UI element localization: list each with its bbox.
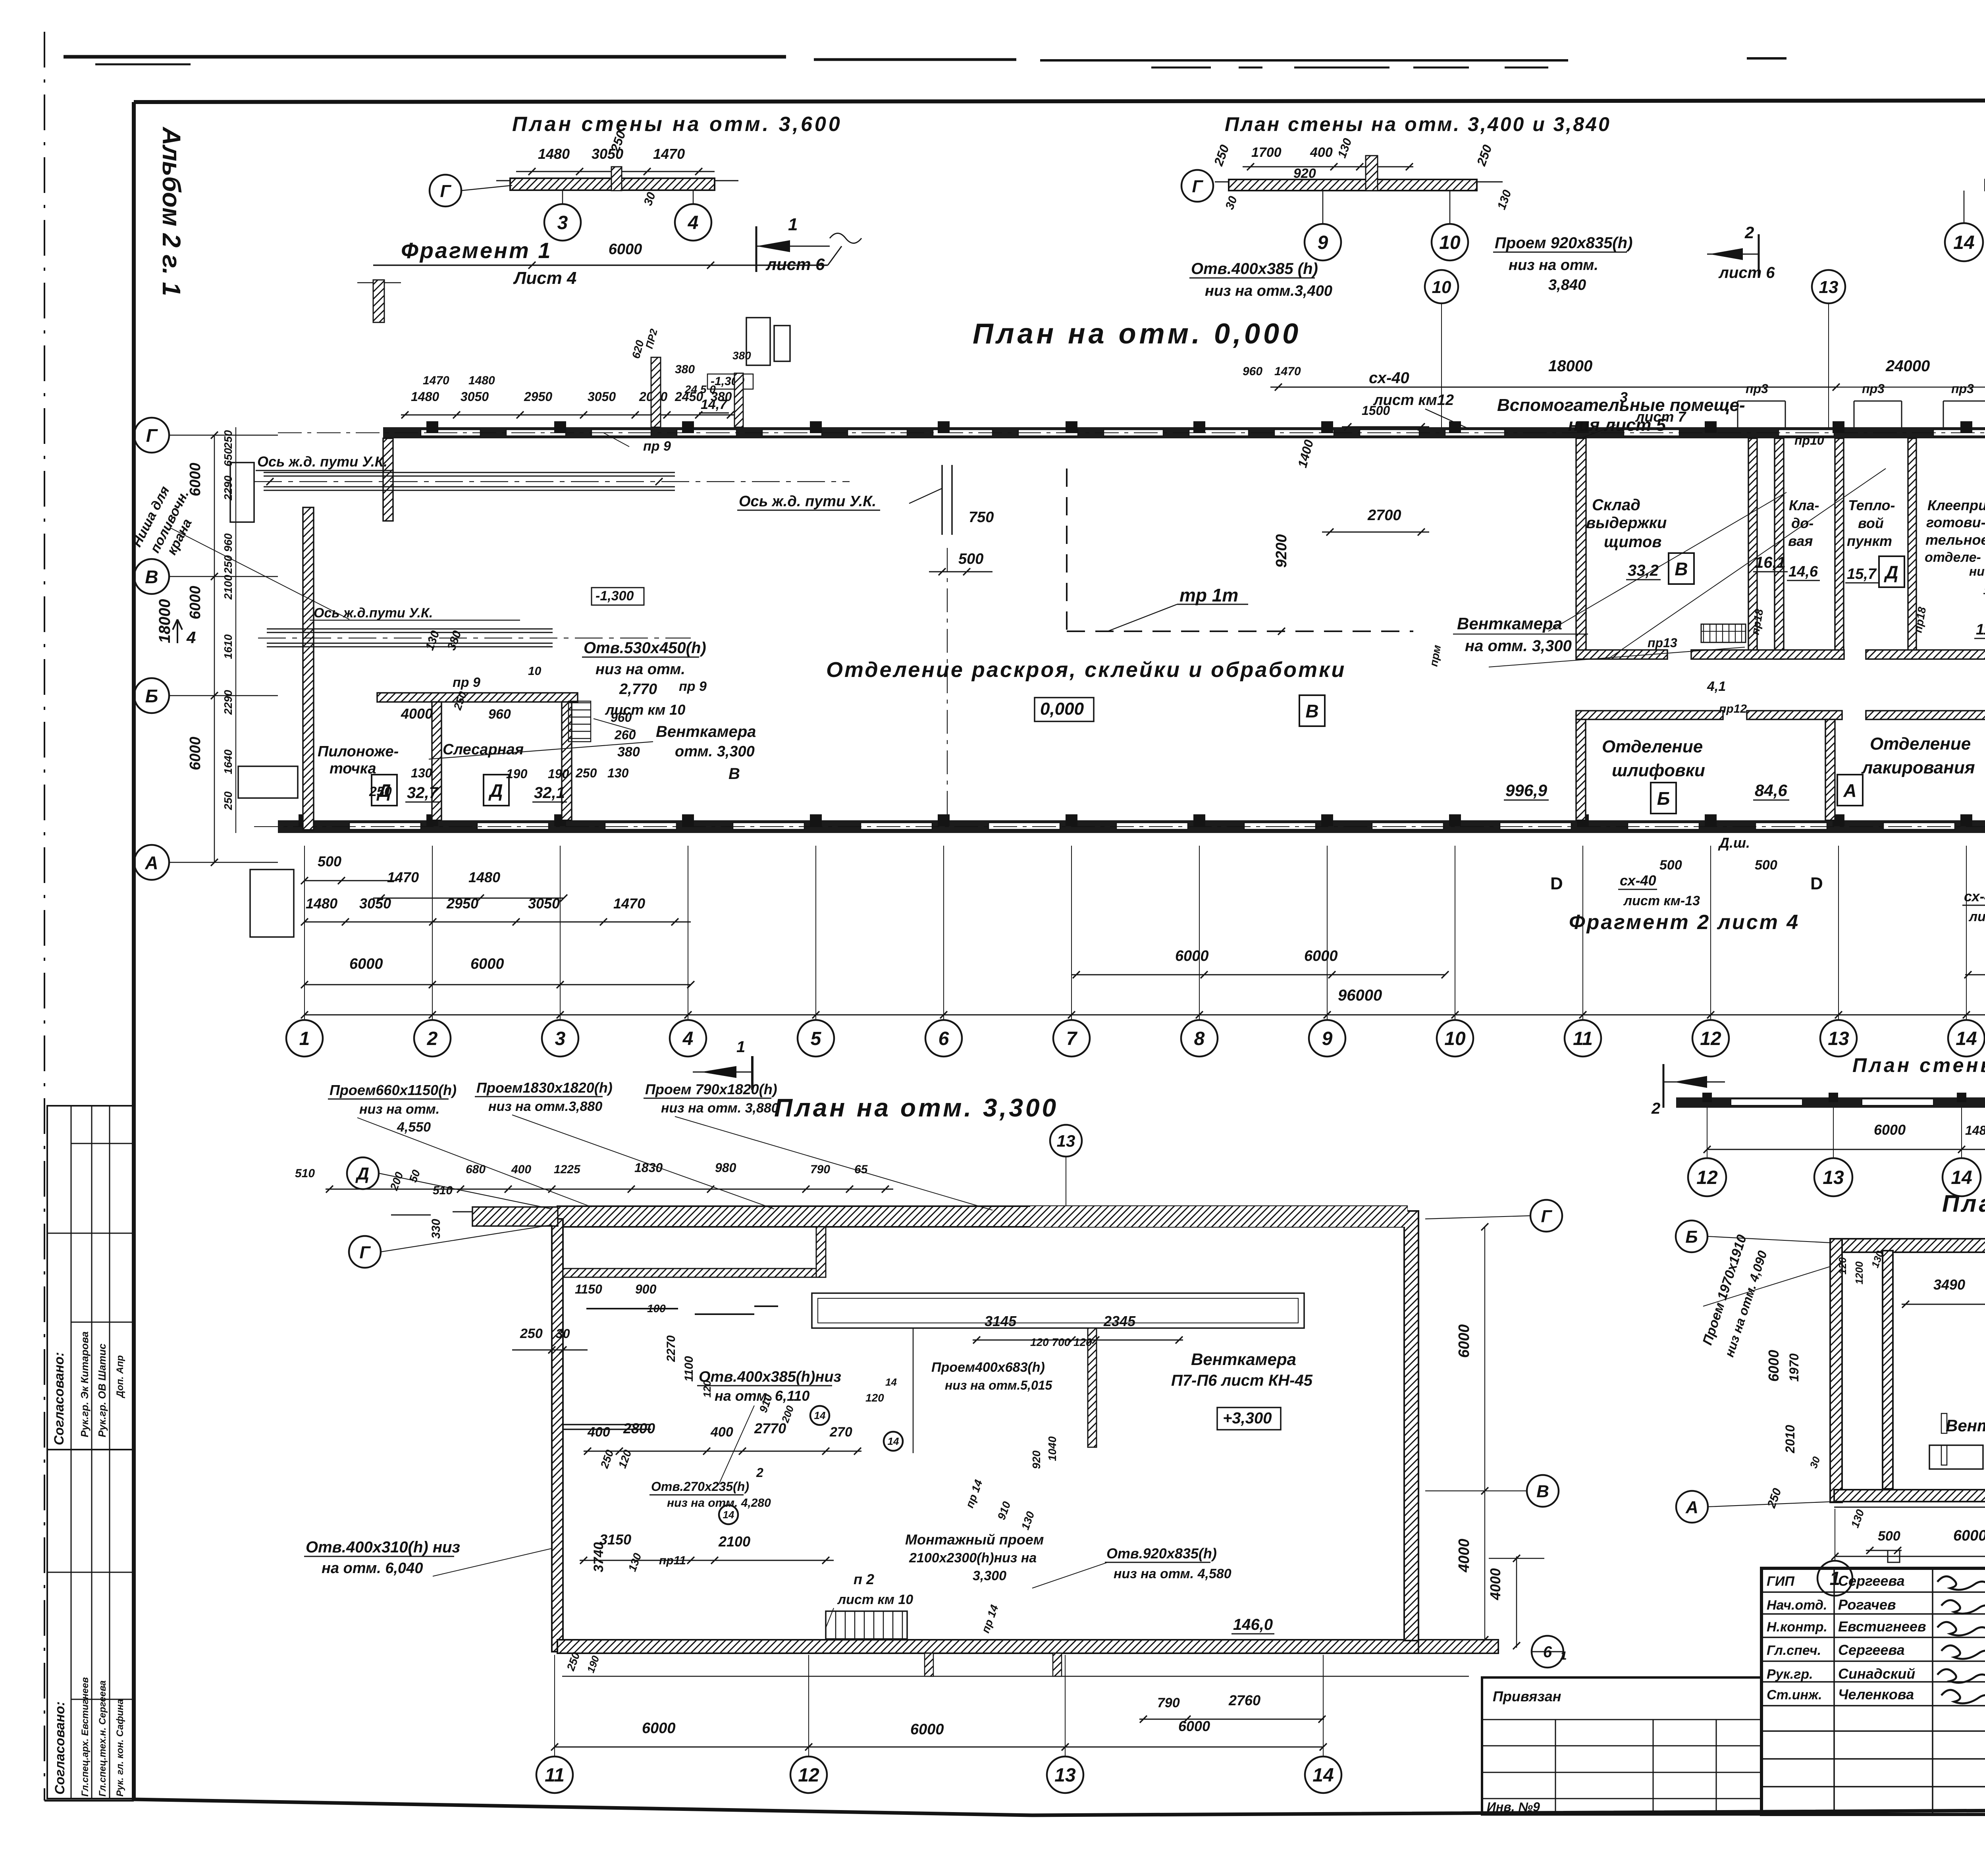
svg-text:250: 250 <box>222 555 234 574</box>
svg-text:2950: 2950 <box>446 895 478 912</box>
svg-text:до-: до- <box>1791 515 1813 531</box>
svg-text:на отм. 3,300: на отм. 3,300 <box>1465 637 1572 655</box>
svg-text:Г: Г <box>359 1243 371 1262</box>
svg-text:сх-40: сх-40 <box>1620 872 1656 889</box>
svg-text:33,2: 33,2 <box>1628 562 1659 579</box>
svg-text:В: В <box>1305 701 1318 721</box>
svg-text:План на отм. 0,000: План на отм. 0,000 <box>973 318 1301 350</box>
svg-text:готови-: готови- <box>1926 514 1985 530</box>
svg-text:10: 10 <box>1432 278 1451 297</box>
svg-text:низ на отм.: низ на отм. <box>595 661 685 678</box>
svg-text:12: 12 <box>1696 1167 1718 1188</box>
svg-text:750: 750 <box>969 509 994 526</box>
svg-text:4000: 4000 <box>1456 1539 1472 1573</box>
svg-text:10: 10 <box>1439 232 1461 253</box>
svg-text:пр3: пр3 <box>1746 382 1768 396</box>
svg-text:Проем400х683(h): Проем400х683(h) <box>931 1360 1045 1375</box>
svg-text:Отв.270х235(h): Отв.270х235(h) <box>651 1479 749 1494</box>
svg-text:Рук. гл. кон. Сафина: Рук. гл. кон. Сафина <box>115 1699 125 1797</box>
svg-text:А: А <box>145 852 158 873</box>
svg-text:270: 270 <box>829 1425 852 1440</box>
svg-text:низ на отм.: низ на отм. <box>1509 257 1598 274</box>
svg-text:Венткамера: Венткамера <box>1457 614 1562 633</box>
svg-text:Отв.400х385 (h): Отв.400х385 (h) <box>1191 260 1318 278</box>
svg-text:14: 14 <box>814 1409 826 1421</box>
svg-text:низ на отм. 3,880: низ на отм. 3,880 <box>661 1101 779 1116</box>
svg-text:1040: 1040 <box>1046 1436 1058 1461</box>
svg-text:В: В <box>728 765 740 783</box>
svg-text:13: 13 <box>1819 278 1839 297</box>
svg-text:9200: 9200 <box>1273 534 1290 568</box>
svg-text:14: 14 <box>888 1435 899 1447</box>
svg-text:D: D <box>1810 874 1823 893</box>
svg-text:на отм. 6,040: на отм. 6,040 <box>322 1560 423 1577</box>
svg-text:380: 380 <box>617 744 640 760</box>
svg-text:6000: 6000 <box>1178 1718 1210 1734</box>
svg-text:Г: Г <box>146 425 158 446</box>
svg-text:3: 3 <box>555 1028 566 1049</box>
svg-text:900: 900 <box>635 1282 657 1296</box>
svg-text:В: В <box>1675 559 1688 579</box>
svg-text:пр 9: пр 9 <box>643 439 671 454</box>
svg-text:2770: 2770 <box>754 1420 786 1436</box>
svg-text:2010: 2010 <box>1783 1425 1797 1454</box>
svg-text:13: 13 <box>1823 1167 1844 1188</box>
svg-text:24000: 24000 <box>1885 357 1930 375</box>
svg-text:380: 380 <box>732 349 751 362</box>
svg-text:3740: 3740 <box>591 1542 606 1572</box>
svg-text:6: 6 <box>939 1028 949 1049</box>
svg-text:146,0: 146,0 <box>1233 1616 1273 1633</box>
svg-text:2290: 2290 <box>222 475 234 501</box>
svg-text:13: 13 <box>1828 1028 1849 1049</box>
svg-text:3050: 3050 <box>461 389 489 404</box>
svg-text:1480: 1480 <box>306 895 337 912</box>
svg-text:1200: 1200 <box>1853 1261 1865 1284</box>
svg-text:Проем660х1150(h): Проем660х1150(h) <box>330 1082 457 1098</box>
svg-text:1100: 1100 <box>682 1356 696 1382</box>
svg-text:отм. 3,300: отм. 3,300 <box>675 743 755 760</box>
svg-text:30: 30 <box>556 1327 570 1341</box>
svg-text:1: 1 <box>1560 1649 1567 1662</box>
svg-text:10: 10 <box>1444 1028 1466 1049</box>
svg-text:1470: 1470 <box>653 146 685 162</box>
svg-text:400: 400 <box>1310 145 1333 160</box>
svg-text:Кла-: Кла- <box>1789 497 1819 513</box>
svg-text:пр 9: пр 9 <box>679 679 707 694</box>
svg-text:330: 330 <box>430 1219 443 1239</box>
svg-text:низ на отм. 4,580: низ на отм. 4,580 <box>1114 1566 1231 1581</box>
svg-text:250: 250 <box>222 430 234 449</box>
svg-text:2100: 2100 <box>222 575 234 600</box>
svg-text:Евстигнеев: Евстигнеев <box>1838 1618 1926 1635</box>
svg-text:2,770: 2,770 <box>619 681 657 698</box>
svg-text:120: 120 <box>1837 1257 1848 1274</box>
svg-text:960: 960 <box>1243 365 1262 378</box>
svg-text:Сергеева: Сергеева <box>1838 1642 1905 1658</box>
svg-text:6000: 6000 <box>470 956 504 972</box>
svg-text:Отделение: Отделение <box>1602 737 1703 756</box>
svg-text:6000: 6000 <box>1304 948 1338 964</box>
svg-text:сх-40: сх-40 <box>1964 888 1985 904</box>
svg-text:65: 65 <box>854 1163 868 1176</box>
svg-text:250: 250 <box>369 784 392 799</box>
svg-text:250: 250 <box>520 1326 543 1341</box>
svg-text:18000: 18000 <box>156 599 173 643</box>
svg-text:Ось ж.д. пути У.К.: Ось ж.д. пути У.К. <box>739 493 876 510</box>
svg-text:1480: 1480 <box>411 389 439 404</box>
svg-text:пункт: пункт <box>1847 533 1892 549</box>
svg-text:14: 14 <box>723 1509 734 1521</box>
svg-text:9: 9 <box>1322 1028 1333 1049</box>
svg-text:-1,300: -1,300 <box>595 588 634 603</box>
svg-text:Синадский: Синадский <box>1838 1666 1915 1682</box>
svg-text:6000: 6000 <box>1456 1324 1472 1358</box>
svg-text:6000: 6000 <box>187 463 204 496</box>
svg-text:Венткамера: Венткамера <box>1191 1350 1296 1369</box>
svg-text:пр3: пр3 <box>1862 382 1885 396</box>
svg-text:2: 2 <box>1744 223 1754 242</box>
svg-text:4000: 4000 <box>401 706 433 722</box>
svg-text:130: 130 <box>411 766 432 780</box>
svg-text:Нач.отд.: Нач.отд. <box>1767 1598 1827 1613</box>
svg-text:Привязан: Привязан <box>1493 1688 1561 1704</box>
svg-text:9: 9 <box>1318 232 1328 253</box>
svg-text:Проем 790х1820(h): Проем 790х1820(h) <box>645 1081 777 1097</box>
svg-text:пр11: пр11 <box>659 1554 686 1567</box>
svg-text:1480: 1480 <box>468 374 495 387</box>
svg-text:3: 3 <box>557 212 568 233</box>
svg-text:1150: 1150 <box>575 1282 602 1296</box>
svg-text:11: 11 <box>545 1765 565 1786</box>
svg-text:п 2: п 2 <box>854 1571 874 1587</box>
svg-text:2270: 2270 <box>665 1335 678 1362</box>
svg-text:790: 790 <box>810 1163 830 1176</box>
svg-text:Отв.920х835(h): Отв.920х835(h) <box>1106 1545 1217 1562</box>
svg-text:тельное: тельное <box>1925 532 1985 548</box>
svg-text:16,1: 16,1 <box>1755 554 1786 571</box>
svg-text:лист 7: лист 7 <box>1635 409 1686 425</box>
svg-text:План стены на отм. 3,400 и 3,8: План стены на отм. 3,400 и 3,840 <box>1225 113 1611 135</box>
svg-text:96000: 96000 <box>1338 987 1382 1004</box>
svg-text:ние: ние <box>1969 564 1985 578</box>
svg-text:точка: точка <box>330 760 376 777</box>
svg-text:Г: Г <box>1192 177 1203 196</box>
svg-text:Отделение: Отделение <box>1870 734 1971 754</box>
svg-text:План стены на отм. 3,600: План стены на отм. 3,600 <box>1852 1054 1985 1076</box>
svg-text:996,9: 996,9 <box>1505 781 1548 800</box>
svg-text:Проем1830х1820(h): Проем1830х1820(h) <box>476 1080 613 1096</box>
svg-text:250: 250 <box>222 791 234 810</box>
svg-text:А: А <box>1843 780 1856 801</box>
svg-text:3050: 3050 <box>528 895 560 912</box>
svg-text:2760: 2760 <box>1228 1692 1260 1708</box>
svg-text:Доп. Апр: Доп. Апр <box>115 1355 125 1398</box>
svg-text:400: 400 <box>710 1425 733 1440</box>
svg-text:щитов: щитов <box>1604 533 1661 551</box>
svg-text:960: 960 <box>488 707 511 722</box>
svg-text:190: 190 <box>506 767 528 781</box>
svg-text:Б: Б <box>1657 788 1670 809</box>
svg-text:118Б: 118Б <box>1976 621 1985 638</box>
svg-text:Рук.гр. Эк Китарова: Рук.гр. Эк Китарова <box>79 1331 91 1437</box>
svg-text:13: 13 <box>1054 1765 1076 1786</box>
svg-text:Пилоноже-: Пилоноже- <box>318 743 399 760</box>
svg-text:Г: Г <box>1541 1207 1552 1226</box>
svg-text:3,300: 3,300 <box>973 1568 1006 1583</box>
svg-text:выдержки: выдержки <box>1586 514 1667 532</box>
svg-text:Фрагмент 1: Фрагмент 1 <box>401 238 552 263</box>
svg-text:Проем 920х835(h): Проем 920х835(h) <box>1495 234 1632 252</box>
svg-text:1480: 1480 <box>538 146 570 162</box>
svg-text:4000: 4000 <box>1487 1568 1503 1600</box>
svg-text:+3,300: +3,300 <box>1223 1409 1272 1427</box>
svg-text:4: 4 <box>688 212 699 233</box>
svg-text:В: В <box>145 567 158 587</box>
svg-text:2: 2 <box>1651 1100 1660 1117</box>
svg-text:11: 11 <box>1573 1028 1593 1049</box>
svg-text:120: 120 <box>701 1380 713 1398</box>
svg-text:сх-40: сх-40 <box>1369 369 1409 387</box>
svg-text:Ст.инж.: Ст.инж. <box>1767 1687 1822 1702</box>
svg-text:3: 3 <box>1620 389 1628 405</box>
svg-text:Отв.400х385(h)низ: Отв.400х385(h)низ <box>699 1369 841 1385</box>
svg-text:пр13: пр13 <box>1648 636 1677 650</box>
svg-text:790: 790 <box>1157 1695 1180 1710</box>
svg-text:510: 510 <box>433 1184 453 1197</box>
svg-text:2800: 2800 <box>623 1420 655 1436</box>
svg-text:1610: 1610 <box>222 634 234 659</box>
svg-text:400: 400 <box>511 1163 531 1176</box>
svg-text:1: 1 <box>736 1038 745 1056</box>
svg-text:лист 6: лист 6 <box>1718 264 1775 281</box>
svg-text:Рук.гр.: Рук.гр. <box>1767 1667 1813 1682</box>
svg-text:пр 9: пр 9 <box>453 675 480 690</box>
svg-text:6000: 6000 <box>1953 1527 1985 1544</box>
svg-text:14: 14 <box>1953 232 1974 253</box>
svg-text:14,6: 14,6 <box>1788 563 1818 580</box>
svg-text:Гл.спец.тех.н. Сергеева: Гл.спец.тех.н. Сергеева <box>97 1680 108 1797</box>
svg-text:1: 1 <box>299 1028 310 1049</box>
svg-text:Монтажный проем: Монтажный проем <box>905 1531 1044 1548</box>
svg-text:84,6: 84,6 <box>1755 781 1787 800</box>
svg-text:3145: 3145 <box>985 1313 1017 1329</box>
svg-text:510: 510 <box>295 1167 315 1180</box>
svg-text:лакирования: лакирования <box>1861 758 1975 777</box>
svg-text:380: 380 <box>675 363 695 376</box>
svg-text:130: 130 <box>607 766 629 780</box>
svg-text:6000: 6000 <box>910 1721 944 1738</box>
svg-text:920: 920 <box>1030 1450 1043 1469</box>
svg-text:6000: 6000 <box>1765 1350 1782 1382</box>
svg-text:6000: 6000 <box>642 1720 676 1737</box>
svg-text:5: 5 <box>811 1028 822 1049</box>
svg-text:Сергеева: Сергеева <box>1838 1573 1905 1589</box>
svg-text:Лист 4: Лист 4 <box>513 268 576 288</box>
svg-text:План стены на отм. 3,600: План стены на отм. 3,600 <box>512 113 842 136</box>
svg-text:2100х2300(h)низ на: 2100х2300(h)низ на <box>909 1550 1037 1566</box>
svg-text:1480: 1480 <box>468 869 500 885</box>
svg-text:4,550: 4,550 <box>397 1120 431 1135</box>
svg-text:100: 100 <box>647 1302 666 1315</box>
svg-text:низ на отм. 4,280: низ на отм. 4,280 <box>667 1496 771 1510</box>
svg-text:1225: 1225 <box>554 1163 581 1176</box>
svg-text:3050: 3050 <box>359 895 391 912</box>
svg-text:Инв. №9: Инв. №9 <box>1487 1800 1540 1814</box>
svg-text:Челенкова: Челенкова <box>1838 1686 1914 1702</box>
svg-text:План на отм. 3,300: План на отм. 3,300 <box>1942 1190 1985 1217</box>
svg-text:190: 190 <box>548 767 569 781</box>
svg-text:3,840: 3,840 <box>1548 277 1586 293</box>
svg-text:Рогачев: Рогачев <box>1838 1596 1896 1613</box>
svg-text:Д.ш.: Д.ш. <box>1718 835 1750 851</box>
svg-text:6000: 6000 <box>1874 1122 1906 1138</box>
svg-text:1470: 1470 <box>423 374 449 387</box>
svg-text:низ на отм.5,015: низ на отм.5,015 <box>945 1378 1053 1392</box>
svg-text:шлифовки: шлифовки <box>1612 761 1705 780</box>
svg-text:1470: 1470 <box>1274 365 1301 378</box>
svg-text:тр 1т: тр 1т <box>1179 585 1238 605</box>
svg-text:Б: Б <box>145 686 158 706</box>
svg-text:Согласовано:: Согласовано: <box>52 1701 67 1795</box>
svg-text:вой: вой <box>1858 515 1884 531</box>
svg-text:Фрагмент 2 лист 4: Фрагмент 2 лист 4 <box>1569 911 1800 934</box>
svg-text:10: 10 <box>528 665 542 678</box>
svg-text:Слесарная: Слесарная <box>443 741 524 758</box>
svg-text:13: 13 <box>1057 1132 1075 1150</box>
svg-text:1970: 1970 <box>1787 1353 1801 1382</box>
svg-text:Ось ж.д. пути У.К.: Ось ж.д. пути У.К. <box>257 453 387 470</box>
svg-text:4,1: 4,1 <box>1707 679 1726 694</box>
svg-text:3050: 3050 <box>588 389 616 404</box>
svg-text:14: 14 <box>1956 1028 1977 1049</box>
svg-text:18000: 18000 <box>1548 357 1592 375</box>
svg-text:6000: 6000 <box>187 737 204 770</box>
svg-text:лист км-13: лист км-13 <box>1623 893 1700 908</box>
svg-text:низ на отм.: низ на отм. <box>359 1102 439 1117</box>
svg-text:1500: 1500 <box>1362 403 1390 418</box>
svg-text:Д: Д <box>1883 562 1898 582</box>
svg-text:ГИП: ГИП <box>1767 1574 1795 1589</box>
svg-text:0,000: 0,000 <box>1040 699 1084 719</box>
svg-text:3490: 3490 <box>1933 1276 1965 1293</box>
svg-text:500: 500 <box>1755 858 1777 873</box>
svg-text:А: А <box>1685 1498 1698 1517</box>
svg-text:Венткамеры П1;П7;П8: Венткамеры П1;П7;П8 <box>1946 1416 1985 1435</box>
svg-text:6000: 6000 <box>187 586 204 619</box>
svg-text:Отв.530х450(h): Отв.530х450(h) <box>584 639 706 657</box>
svg-text:6000: 6000 <box>1175 948 1209 964</box>
svg-text:960: 960 <box>222 533 234 552</box>
svg-text:П7-П6 лист КН-45: П7-П6 лист КН-45 <box>1171 1372 1313 1389</box>
svg-text:Н.контр.: Н.контр. <box>1767 1620 1827 1635</box>
svg-text:1470: 1470 <box>613 895 645 912</box>
svg-text:250: 250 <box>575 766 597 780</box>
svg-text:6000: 6000 <box>349 956 383 972</box>
svg-text:низ на отм.3,400: низ на отм.3,400 <box>1205 283 1332 299</box>
svg-text:Согласовано:: Согласовано: <box>52 1352 67 1445</box>
svg-text:Рук.гр. ОВ Шатис: Рук.гр. ОВ Шатис <box>96 1343 108 1437</box>
svg-text:Склад: Склад <box>1592 496 1640 514</box>
svg-text:4: 4 <box>682 1028 694 1049</box>
svg-text:2700: 2700 <box>1367 507 1401 524</box>
svg-text:2950: 2950 <box>524 389 552 404</box>
svg-text:Клеепри-: Клеепри- <box>1927 497 1985 513</box>
svg-text:8: 8 <box>1194 1028 1205 1049</box>
svg-text:Д: Д <box>355 1164 369 1184</box>
svg-text:лист 6: лист 6 <box>765 255 825 274</box>
svg-text:Альбом 2 г. 1: Альбом 2 г. 1 <box>157 126 186 296</box>
svg-text:Б: Б <box>1685 1227 1698 1247</box>
svg-text:1640: 1640 <box>222 749 234 774</box>
svg-text:500: 500 <box>318 853 341 870</box>
svg-text:Отв.400х310(h) низ: Отв.400х310(h) низ <box>306 1539 460 1556</box>
svg-text:2345: 2345 <box>1103 1313 1136 1329</box>
svg-text:D: D <box>1550 874 1563 893</box>
svg-text:низ на отм.3,880: низ на отм.3,880 <box>488 1099 602 1114</box>
svg-text:4: 4 <box>186 628 196 647</box>
svg-text:32,7: 32,7 <box>407 784 439 802</box>
svg-text:6000: 6000 <box>609 241 642 258</box>
svg-text:Д: Д <box>488 780 503 801</box>
svg-text:лист км 10: лист км 10 <box>837 1592 913 1607</box>
svg-text:500: 500 <box>958 551 983 567</box>
svg-text:14,7: 14,7 <box>701 397 728 412</box>
svg-text:14: 14 <box>1312 1765 1334 1786</box>
svg-text:1480: 1480 <box>1965 1123 1985 1138</box>
svg-text:14: 14 <box>885 1376 897 1388</box>
svg-text:2290: 2290 <box>222 690 234 715</box>
svg-text:отделе-: отделе- <box>1925 550 1981 565</box>
svg-text:120: 120 <box>865 1392 884 1404</box>
svg-text:2100: 2100 <box>718 1533 750 1550</box>
svg-text:680: 680 <box>466 1163 486 1176</box>
svg-text:Гл.спец.арх. Евстигнеев: Гл.спец.арх. Евстигнеев <box>80 1677 91 1797</box>
svg-text:Тепло-: Тепло- <box>1848 497 1895 513</box>
svg-text:Отделение раскроя, склейки и о: Отделение раскроя, склейки и обработки <box>826 658 1346 682</box>
svg-text:650: 650 <box>222 448 234 467</box>
svg-text:пр12: пр12 <box>1719 702 1747 715</box>
svg-text:лист км 10: лист км 10 <box>605 702 685 718</box>
svg-text:1: 1 <box>788 215 798 234</box>
svg-text:Ось ж.д.пути У.К.: Ось ж.д.пути У.К. <box>314 605 433 621</box>
svg-text:Гл.спеч.: Гл.спеч. <box>1767 1643 1821 1658</box>
svg-text:120 700 120: 120 700 120 <box>1030 1336 1092 1348</box>
svg-text:1700: 1700 <box>1251 145 1282 160</box>
svg-text:План на отм. 3,300: План на отм. 3,300 <box>774 1093 1058 1122</box>
svg-text:пр3: пр3 <box>1951 382 1974 396</box>
svg-text:вая: вая <box>1788 533 1813 549</box>
svg-text:2: 2 <box>427 1028 438 1049</box>
svg-text:лист км-13: лист км-13 <box>1968 909 1985 924</box>
svg-text:пр10: пр10 <box>1794 433 1824 447</box>
svg-text:500: 500 <box>1878 1529 1900 1544</box>
svg-text:Венткамера: Венткамера <box>656 723 756 740</box>
svg-text:14: 14 <box>1951 1167 1972 1188</box>
svg-text:980: 980 <box>715 1161 736 1175</box>
svg-text:В: В <box>1536 1482 1549 1501</box>
svg-text:2: 2 <box>756 1465 763 1480</box>
svg-text:Г: Г <box>440 181 451 201</box>
svg-text:12: 12 <box>798 1765 819 1786</box>
svg-text:7: 7 <box>1066 1028 1078 1049</box>
svg-text:32,1: 32,1 <box>534 784 565 802</box>
svg-text:12: 12 <box>1700 1028 1721 1049</box>
svg-text:400: 400 <box>587 1425 610 1440</box>
svg-text:500: 500 <box>1659 858 1682 873</box>
svg-text:1470: 1470 <box>387 869 419 885</box>
svg-text:15,7: 15,7 <box>1847 566 1877 582</box>
